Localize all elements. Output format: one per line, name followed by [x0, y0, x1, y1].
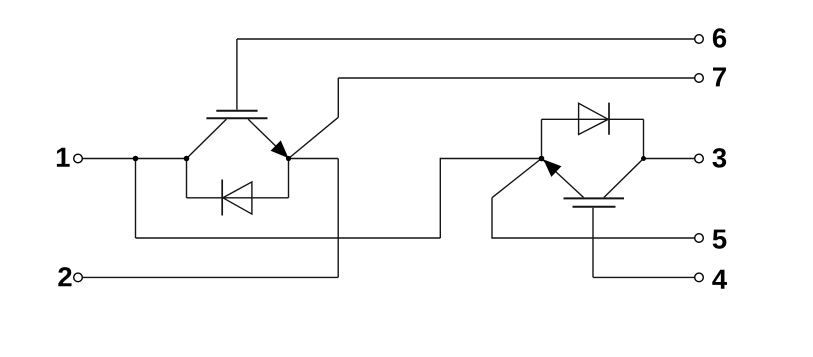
wire terminal6 run	[237, 38, 695, 40]
wire terminal7 diagonal to Q1 emitter node	[289, 117, 339, 158]
wire terminal2 vertical	[337, 159, 339, 278]
transistor Q1 (left IGBT)	[187, 111, 289, 159]
pin terminal 4	[695, 273, 704, 282]
transistor Q2 emitter arrow	[544, 160, 560, 176]
node Q1 emitter	[286, 156, 291, 161]
wire terminal7 run	[338, 77, 694, 79]
wire Q1 emitter horizontal	[289, 158, 339, 160]
wire Q2 gate lead	[592, 208, 594, 278]
pin terminal 1	[74, 154, 83, 163]
wire D1 right vertical	[288, 159, 290, 198]
wire D2 right vertical	[643, 119, 645, 158]
wire D1 horizontal	[187, 197, 289, 199]
wire D1 left vertical	[186, 159, 188, 198]
pin terminal 5	[695, 234, 704, 243]
wire terminal7 vertical	[337, 78, 339, 117]
transistor Q2 (right IGBT)	[542, 159, 644, 207]
pin terminal 7	[695, 74, 704, 83]
wire riser at x=440	[439, 158, 441, 238]
label pin 3	[712, 148, 726, 168]
diode D2 (right, anti-parallel)	[579, 103, 609, 135]
label pin 2	[58, 267, 71, 286]
wire drop from node A down	[135, 159, 137, 239]
wire terminal1 to Q1 collector node	[83, 158, 187, 160]
wire riser at x=492	[491, 198, 493, 239]
wire long bottom run	[136, 237, 441, 239]
label pin 4	[712, 270, 727, 289]
node Q2 emitter	[539, 156, 545, 162]
wire terminal4 run	[593, 276, 695, 278]
wire D2 left vertical	[541, 119, 543, 158]
transistor Q1 emitter arrow	[272, 141, 288, 157]
label pin 6	[713, 28, 726, 47]
pin terminal 2	[74, 273, 83, 282]
diode D1 (left, anti-parallel)	[222, 180, 252, 216]
pin terminal 3	[695, 154, 704, 163]
label pin 7	[713, 67, 726, 86]
wire Q1 gate lead	[236, 39, 238, 110]
pin terminal 6	[695, 35, 704, 44]
wire terminal5 run	[492, 237, 695, 239]
wire D2 horizontal	[542, 118, 644, 120]
node Q1 collector	[184, 156, 190, 162]
wire diagonal to Q2 emitter node	[492, 159, 542, 198]
wire terminal3 run	[644, 158, 695, 160]
wire terminal2 run	[83, 276, 339, 278]
label pin 1	[57, 148, 70, 167]
node junction on terminal1 wire	[133, 156, 139, 162]
node Q2 collector	[641, 156, 646, 161]
label pin 5	[713, 230, 727, 249]
wire to Q2 emitter node	[440, 158, 541, 160]
